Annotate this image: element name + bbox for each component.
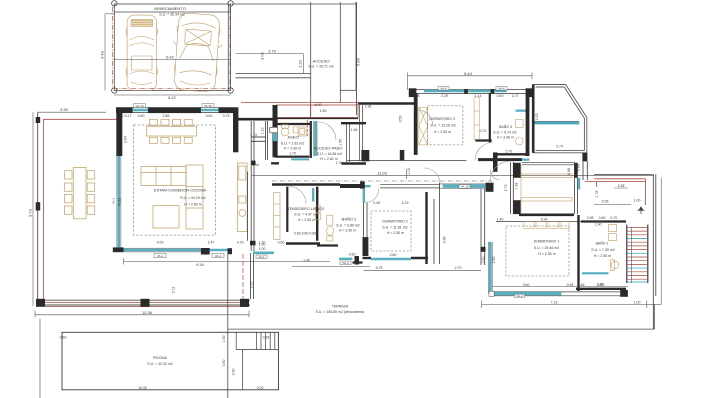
svg-text:6.44: 6.44 xyxy=(464,71,473,76)
svg-text:TERRAZA: TERRAZA xyxy=(332,305,349,309)
dorm2 south window cyan xyxy=(371,258,411,261)
svg-text:1.95: 1.95 xyxy=(339,139,343,146)
svg-text:6.42: 6.42 xyxy=(166,54,175,59)
dorm1 west window cyan tall xyxy=(489,242,492,294)
corridor dash-dot line xyxy=(272,180,494,182)
svg-text:5.34: 5.34 xyxy=(541,218,548,222)
svg-text:S.U. = 29.46 m2: S.U. = 29.46 m2 xyxy=(534,246,559,250)
baño3 fixtures xyxy=(516,120,524,145)
svg-text:4.00: 4.00 xyxy=(157,241,164,245)
svg-text:3.30: 3.30 xyxy=(60,107,69,112)
dormitorio 2 walls xyxy=(363,192,429,264)
corridor wall below dorm3 xyxy=(347,160,466,162)
dims above south wall xyxy=(157,241,285,245)
svg-text:5.75: 5.75 xyxy=(376,266,383,270)
svg-text:H = 2.60 m: H = 2.60 m xyxy=(497,135,514,139)
baño3 cyan window top right xyxy=(516,110,530,112)
svg-text:S.U. = 35.34 m2: S.U. = 35.34 m2 xyxy=(159,12,184,16)
dims above dorm1 south wall xyxy=(492,283,628,287)
svg-text:1.70: 1.70 xyxy=(289,151,296,155)
svg-text:1.10: 1.10 xyxy=(407,168,411,175)
outdoor dining table xyxy=(65,167,95,218)
svg-text:2.74: 2.74 xyxy=(556,144,563,148)
svg-text:0.63 0.60 0.65: 0.63 0.60 0.65 xyxy=(294,232,316,236)
parking red dash-dot boundary xyxy=(113,7,231,89)
sofa group xyxy=(141,165,203,229)
kitchen wall xyxy=(248,121,255,299)
svg-text:0.60: 0.60 xyxy=(349,252,356,256)
svg-text:0.17: 0.17 xyxy=(125,114,132,118)
svg-text:0.60: 0.60 xyxy=(599,216,606,220)
window VA-10 right on top wall xyxy=(201,109,219,112)
svg-text:ESTAR-COMEDOR-COCINA: ESTAR-COMEDOR-COCINA xyxy=(154,188,206,193)
corridor window cyan small xyxy=(363,185,371,187)
svg-text:PISCINA: PISCINA xyxy=(153,356,168,360)
svg-text:0.79: 0.79 xyxy=(223,114,230,118)
svg-text:VA-6: VA-6 xyxy=(498,87,505,91)
porch outline outer xyxy=(533,85,587,153)
baño2 south walls xyxy=(317,246,363,263)
south window 2 xyxy=(210,249,228,252)
laundry wall vertical xyxy=(286,187,288,232)
svg-text:3.53: 3.53 xyxy=(399,116,403,123)
svg-text:VA-10: VA-10 xyxy=(460,185,468,189)
svg-text:1.03: 1.03 xyxy=(535,114,539,121)
left wall of dorm3 hall xyxy=(356,2,358,115)
svg-text:1.70: 1.70 xyxy=(505,149,512,153)
living room dashed boundary xyxy=(134,125,216,235)
aseo corner post xyxy=(273,105,278,121)
level cross symbol xyxy=(638,207,645,214)
svg-text:2.06: 2.06 xyxy=(602,200,609,204)
svg-text:1.28: 1.28 xyxy=(515,183,519,190)
svg-text:VA-1: VA-1 xyxy=(215,254,222,258)
svg-text:1.47: 1.47 xyxy=(208,241,215,245)
svg-text:DORMITORIO 2: DORMITORIO 2 xyxy=(382,220,408,224)
svg-text:2.60: 2.60 xyxy=(390,253,397,257)
svg-text:1.14: 1.14 xyxy=(475,94,482,98)
svg-text:10.36: 10.36 xyxy=(142,310,153,315)
living room east wall xyxy=(233,107,238,152)
vestidor west wall xyxy=(511,162,514,214)
vestidor east cyan window xyxy=(578,178,580,190)
dorm1 headboard tan xyxy=(524,222,569,229)
svg-text:2.50: 2.50 xyxy=(482,257,486,264)
dorm3 dim 6.44 xyxy=(408,73,532,91)
kitchen north wall xyxy=(236,118,274,121)
svg-text:2.00: 2.00 xyxy=(232,369,236,376)
house east wall xyxy=(653,174,656,329)
parking area outline xyxy=(114,4,230,91)
svg-text:TENDEDERO-LAVADO: TENDEDERO-LAVADO xyxy=(288,207,325,211)
dorm1 west wall xyxy=(481,189,485,265)
svg-text:4.19: 4.19 xyxy=(402,201,409,205)
terrace left outline black xyxy=(38,112,250,306)
cyan vertical at dorm2 NW xyxy=(363,189,365,203)
dorm3 left wall xyxy=(414,93,418,154)
door arc dorm3 entry xyxy=(418,110,433,125)
svg-text:S.U. = 26.71 m2: S.U. = 26.71 m2 xyxy=(308,65,333,69)
svg-text:H = 2.60 m: H = 2.60 m xyxy=(284,147,301,151)
door arc laundry xyxy=(289,187,306,204)
car 2 (right) top view xyxy=(170,12,224,92)
stairs xyxy=(627,225,648,284)
svg-text:2.29: 2.29 xyxy=(441,94,448,98)
door arc dorm2 into hall xyxy=(424,168,440,184)
dims 6.00 1.50 above red band xyxy=(315,103,327,113)
dorm1 bed dashed xyxy=(506,226,569,276)
aseo walls xyxy=(273,121,311,158)
door arc dorm3 xyxy=(475,143,493,161)
dorm3 right wall xyxy=(526,93,530,156)
dorm3 bed dashed xyxy=(428,106,463,145)
living room west wall upper xyxy=(116,113,122,156)
svg-text:S.U. = 7.39 m2: S.U. = 7.39 m2 xyxy=(591,248,614,252)
red dashes below band xyxy=(306,120,308,136)
door arc hall to dorm1 xyxy=(490,162,510,182)
tendedero-lavado left wall posts xyxy=(250,161,256,246)
wall post right of dorm2 window xyxy=(486,183,494,192)
svg-text:1.50: 1.50 xyxy=(320,109,327,113)
long dim line 11.03 across hall xyxy=(252,169,654,179)
svg-text:1.00: 1.00 xyxy=(634,199,641,203)
svg-text:6.42: 6.42 xyxy=(168,95,177,100)
label PISCINA xyxy=(147,356,172,366)
access path top line xyxy=(232,3,357,5)
svg-text:2.50: 2.50 xyxy=(492,257,496,264)
stairs direction line xyxy=(631,227,633,283)
corner line right xyxy=(228,305,655,330)
svg-text:4.00: 4.00 xyxy=(116,197,121,206)
svg-text:11.03: 11.03 xyxy=(377,170,387,175)
pool xyxy=(62,332,278,390)
svg-text:1.20: 1.20 xyxy=(298,59,303,68)
pool steps compartment xyxy=(236,332,278,390)
dimension 9.73 rotated left xyxy=(32,112,34,306)
label DORMITORIO 2 xyxy=(382,220,408,236)
svg-text:2.70: 2.70 xyxy=(455,266,462,270)
svg-text:10.00: 10.00 xyxy=(138,386,147,390)
svg-text:4.49: 4.49 xyxy=(100,50,105,59)
svg-text:0.60: 0.60 xyxy=(138,114,145,118)
access path horizontal edges xyxy=(236,73,311,77)
svg-text:1.40: 1.40 xyxy=(497,218,504,222)
svg-text:H = 2.50 m: H = 2.50 m xyxy=(594,254,611,258)
svg-text:9.73: 9.73 xyxy=(28,208,33,217)
car 1 (left) top view xyxy=(126,15,157,90)
left outer vertical bottom xyxy=(39,319,41,398)
terrace red boundary xyxy=(43,119,248,306)
svg-text:1.00: 1.00 xyxy=(259,242,266,246)
corridor south wall segments xyxy=(272,183,340,186)
dimension 6.42 middle of parking xyxy=(114,59,230,61)
dorm2 east double wall xyxy=(434,183,440,264)
svg-text:3.98: 3.98 xyxy=(443,237,447,244)
svg-text:VA-10: VA-10 xyxy=(204,104,212,108)
svg-text:VA-5: VA-5 xyxy=(440,87,447,91)
svg-text:2.55: 2.55 xyxy=(250,282,254,289)
dorm3 wardrobe with X xyxy=(419,107,428,145)
dorm1 area upper walls xyxy=(519,214,574,217)
label ACCESO-PASO xyxy=(313,146,342,165)
svg-text:0.79: 0.79 xyxy=(610,216,617,220)
svg-text:3.02: 3.02 xyxy=(260,51,265,60)
baño2 fixtures xyxy=(327,215,334,241)
svg-text:H = 2.50 m: H = 2.50 m xyxy=(538,252,555,256)
label DORMITORIO 1 xyxy=(534,240,560,256)
stairs area top line xyxy=(594,173,652,175)
svg-text:H = 2.50 m: H = 2.50 m xyxy=(339,229,356,233)
svg-text:3.50: 3.50 xyxy=(222,360,226,367)
svg-text:H = 2.80 m: H = 2.80 m xyxy=(184,203,201,207)
living room SW corner post xyxy=(113,247,124,252)
svg-text:1.78: 1.78 xyxy=(595,191,599,198)
svg-text:S.U. = 13.26 m2: S.U. = 13.26 m2 xyxy=(430,124,455,128)
svg-text:7.19: 7.19 xyxy=(551,301,558,305)
porch left wall xyxy=(532,85,535,153)
dining table with chairs xyxy=(147,119,197,143)
south wall post middle xyxy=(201,248,232,255)
vestidor wall posts xyxy=(513,163,577,214)
label ASEO xyxy=(281,135,304,156)
svg-text:DORMITORIO 3: DORMITORIO 3 xyxy=(429,117,455,121)
red band wall top of aseo xyxy=(241,102,358,117)
svg-text:BAÑO 1: BAÑO 1 xyxy=(596,241,609,246)
label ACCESO xyxy=(308,59,333,69)
svg-text:3.72: 3.72 xyxy=(172,287,176,294)
south window labels xyxy=(154,254,224,258)
dorm1/baño1 separating wall xyxy=(577,215,579,291)
dim 2.60 / 5.75 / 2.70 xyxy=(376,253,462,270)
vestidor top wall xyxy=(478,158,522,161)
acceso-paso glass door cyan xyxy=(314,121,317,156)
svg-text:1.96: 1.96 xyxy=(365,105,372,109)
red dashed vertical below living room xyxy=(242,254,244,299)
dorm2 NW post xyxy=(360,182,365,189)
svg-text:3.38: 3.38 xyxy=(618,184,625,188)
svg-text:VA-2: VA-2 xyxy=(516,294,523,298)
baño1 south wall xyxy=(576,288,626,290)
living room west window (tall cyan) xyxy=(118,156,121,247)
label ESTAR-COMEDOR-COCINA xyxy=(154,188,206,207)
svg-text:H = 2.50 m: H = 2.50 m xyxy=(387,231,404,235)
baño1 top wall xyxy=(581,220,626,222)
svg-text:1.00: 1.00 xyxy=(222,336,226,343)
svg-text:H = 2.50 m: H = 2.50 m xyxy=(434,130,451,134)
svg-text:S.U. = 2.81 m2: S.U. = 2.81 m2 xyxy=(281,141,304,145)
right dim vertical xyxy=(660,178,662,305)
dorm2 top window wide cyan xyxy=(443,184,486,187)
baño1 fixtures xyxy=(609,225,619,271)
vestidor east wall xyxy=(575,163,578,214)
svg-text:2.64: 2.64 xyxy=(124,136,128,143)
dims under top wall xyxy=(117,114,230,118)
svg-text:1.96: 1.96 xyxy=(351,128,358,132)
window label boxes on top wall xyxy=(134,104,215,108)
svg-text:1.10: 1.10 xyxy=(261,128,265,135)
porch SE post and wall down xyxy=(582,153,587,162)
svg-text:DORMITORIO 1: DORMITORIO 1 xyxy=(534,240,560,244)
kitchen counter strip xyxy=(238,163,248,232)
label DORMITORIO 3 xyxy=(429,117,456,134)
dorm1 south wall with window xyxy=(489,292,628,296)
hall east double wall xyxy=(346,105,362,162)
stairs red boundary xyxy=(585,179,646,205)
dimension 10.36 bottom of terrace xyxy=(35,311,249,318)
svg-text:BAÑO 2: BAÑO 2 xyxy=(342,216,357,221)
living room south window (long cyan) xyxy=(124,249,201,252)
label TERRAZA xyxy=(316,305,365,314)
svg-text:ACCESO: ACCESO xyxy=(313,59,330,64)
svg-text:VA-1: VA-1 xyxy=(157,254,164,258)
door arc dorm2 entry xyxy=(365,189,379,203)
window VA-10 left on top wall xyxy=(133,109,148,112)
svg-text:S.U. = 11.81 m2: S.U. = 11.81 m2 xyxy=(382,225,407,229)
svg-text:0.70: 0.70 xyxy=(480,129,487,133)
cyan below baño3 xyxy=(507,159,530,161)
svg-text:VA-1: VA-1 xyxy=(258,255,265,259)
water heater boxes xyxy=(316,206,321,220)
svg-text:S.U. = 16.56 m2: S.U. = 16.56 m2 xyxy=(317,152,342,156)
svg-text:1.74: 1.74 xyxy=(250,133,257,137)
laundry/bath wall vertical 2 xyxy=(316,187,318,241)
dimension 6.42 below parking xyxy=(114,94,230,96)
dimension 3.30 top of terrace xyxy=(38,111,106,113)
hall south wall band xyxy=(271,162,366,165)
terrace corner posts xyxy=(36,299,249,307)
svg-text:VA-1: VA-1 xyxy=(112,197,116,204)
svg-text:2.00: 2.00 xyxy=(257,386,264,390)
svg-text:1.07: 1.07 xyxy=(512,94,519,98)
dorm2 bed dashed xyxy=(371,211,411,251)
wall between dorm3 and baño3 xyxy=(475,93,491,142)
living room top wall xyxy=(116,108,234,113)
dims under dorm3 top wall xyxy=(413,94,519,98)
dorm3 top wall xyxy=(409,90,533,94)
svg-text:0.60: 0.60 xyxy=(497,94,504,98)
svg-text:0.60: 0.60 xyxy=(278,241,285,245)
label TENDEDERO-LAVADO xyxy=(288,207,325,222)
svg-text:S.U. = 42.00 m2: S.U. = 42.00 m2 xyxy=(147,362,172,366)
label BAÑO 3 xyxy=(493,124,516,140)
svg-text:VA-3: VA-3 xyxy=(342,261,349,265)
baño2/dorm2 west wall xyxy=(364,203,367,237)
svg-text:VA-10: VA-10 xyxy=(135,104,143,108)
baño3 south wall xyxy=(493,153,529,155)
aseo fixtures: sink xyxy=(281,124,306,136)
svg-text:0.60: 0.60 xyxy=(206,114,213,118)
svg-text:S.U. = 6.80 m2: S.U. = 6.80 m2 xyxy=(336,223,359,227)
baño1 interior cyan xyxy=(582,272,609,274)
svg-text:0.25: 0.25 xyxy=(263,336,270,340)
svg-text:1.00: 1.00 xyxy=(634,301,641,305)
svg-text:6.00: 6.00 xyxy=(315,103,322,107)
dimension 4.49 vertical left of parking xyxy=(105,14,114,91)
svg-text:0.60: 0.60 xyxy=(60,336,67,340)
middle wardrobe tan xyxy=(474,97,479,140)
dorm3 top windows cyan xyxy=(424,90,507,92)
svg-text:3.79: 3.79 xyxy=(268,48,277,53)
window sill cyan left (1.00) xyxy=(253,252,274,255)
dim 9.34 below south wall xyxy=(124,258,331,265)
svg-text:S.U. = 4.97 m2: S.U. = 4.97 m2 xyxy=(294,213,317,217)
porch cyan band xyxy=(535,122,580,125)
svg-text:1.00: 1.00 xyxy=(259,247,266,251)
svg-text:S.U. = 94.29 m2: S.U. = 94.29 m2 xyxy=(180,196,205,200)
svg-text:S.U. = 5.74 m2: S.U. = 5.74 m2 xyxy=(493,130,516,134)
vestidor shelves tan xyxy=(521,165,572,213)
svg-text:BAÑO 3: BAÑO 3 xyxy=(499,124,512,129)
door arc acceso-paso xyxy=(318,122,336,140)
svg-text:2.86: 2.86 xyxy=(163,114,170,118)
svg-text:9.34: 9.34 xyxy=(196,262,205,267)
long vertical through pool xyxy=(227,251,229,398)
svg-text:2.45: 2.45 xyxy=(373,201,380,205)
svg-text:H = 2.50 m: H = 2.50 m xyxy=(298,218,315,222)
svg-text:1.90: 1.90 xyxy=(595,223,602,227)
baño2 window cyan bottom xyxy=(339,258,353,260)
parking corner columns xyxy=(112,1,234,94)
hall top wall right of red band xyxy=(341,104,414,124)
svg-text:1.40: 1.40 xyxy=(303,258,310,262)
label APARCAMIENTO xyxy=(154,6,186,16)
label BAÑO 2 xyxy=(336,216,359,232)
cyan window laundry xyxy=(312,188,314,202)
svg-text:2.98: 2.98 xyxy=(587,216,594,220)
dim 7.19 / 1.00 bottom xyxy=(482,301,662,309)
label BAÑO 1 xyxy=(591,241,614,258)
svg-text:2.73: 2.73 xyxy=(504,185,508,192)
bottom wall laundry xyxy=(286,242,320,244)
svg-text:0.91: 0.91 xyxy=(237,241,244,245)
wardrobe tall tan xyxy=(274,193,281,240)
svg-text:0.88: 0.88 xyxy=(567,168,571,175)
svg-text:ASEO: ASEO xyxy=(287,135,298,140)
svg-text:APARCAMIENTO: APARCAMIENTO xyxy=(154,6,186,11)
svg-text:S.U. = 165.80 m2 (descubierta): S.U. = 165.80 m2 (descubierta) xyxy=(316,310,365,314)
dimension 3.79 xyxy=(236,54,304,74)
living room top wall posts xyxy=(116,107,234,113)
wall stub left of aseo xyxy=(251,137,265,141)
access walkway vertical edges xyxy=(311,2,356,117)
